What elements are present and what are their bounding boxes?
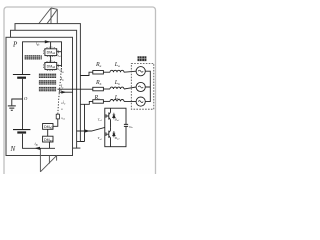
wire left rail lower xyxy=(23,134,56,149)
battery B1 long plate xyxy=(13,74,30,76)
top fin vertical 2 xyxy=(56,9,58,30)
resistor Rc xyxy=(93,100,104,104)
svg-text:DMa1: DMa1 xyxy=(47,51,56,56)
svg-text:N: N xyxy=(10,145,16,153)
bottom fin vertical 1 xyxy=(39,148,41,172)
wire Ra-La xyxy=(103,71,110,73)
DM unit 2 box xyxy=(45,63,57,70)
battery B2 long plate xyxy=(13,129,30,131)
ground symbol xyxy=(8,106,16,110)
wire DM1 top drop xyxy=(50,42,52,49)
svg-text:Da2: Da2 xyxy=(114,136,121,141)
AC source c xyxy=(136,97,145,106)
DM unit 4 box xyxy=(43,136,53,142)
wire bus to DM3 xyxy=(53,119,58,126)
top fin top edge xyxy=(51,8,57,9)
diode D2 xyxy=(113,131,116,137)
AC source b xyxy=(136,82,145,91)
inductor La xyxy=(110,70,124,72)
wire Rc-Lc xyxy=(103,100,110,102)
svg-text:DMa3: DMa3 xyxy=(44,125,53,130)
bottom fin vertical 2 xyxy=(48,156,50,164)
svg-text:P: P xyxy=(12,41,18,49)
top fin slant A xyxy=(39,8,52,24)
wire phase c xyxy=(80,101,92,104)
wire DM2 right out xyxy=(57,65,62,67)
svg-text:DMan: DMan xyxy=(44,138,53,143)
battery B2 short plate xyxy=(17,131,26,133)
battery group text row 2 xyxy=(39,80,56,84)
label manual switch text xyxy=(25,55,42,59)
battery group text row 1 xyxy=(39,74,56,78)
module box 1 (front) xyxy=(6,37,73,155)
page frame xyxy=(4,7,156,185)
arrow on N bus xyxy=(34,147,40,150)
wire right bus dashed xyxy=(58,68,62,114)
IGBT T2 xyxy=(106,127,111,146)
dashed oval around DM1 xyxy=(43,47,58,57)
module box 3 (back) xyxy=(15,24,80,142)
module box 2 (middle) xyxy=(11,30,77,148)
small series box on bus xyxy=(56,114,59,119)
wire Lb-grid xyxy=(124,87,136,89)
wire right bus solid xyxy=(61,52,63,67)
wire phase b xyxy=(58,88,93,90)
svg-text:Ta1: Ta1 xyxy=(98,118,102,123)
inductor Lc xyxy=(110,99,124,101)
wire internal output with arrow xyxy=(59,91,73,93)
wire DM4 down to N bus xyxy=(49,142,51,148)
DM unit 3 box xyxy=(43,124,53,130)
wire DM1-DM2 xyxy=(50,56,52,63)
svg-text:DMa2: DMa2 xyxy=(47,64,56,69)
resistor Rb xyxy=(93,87,104,91)
wire phase a xyxy=(80,72,92,75)
wire La-grid xyxy=(124,71,136,72)
dashed oval around DM2 xyxy=(43,61,58,71)
ground stub wire xyxy=(12,99,23,105)
battery B1 short plate xyxy=(17,77,26,79)
callout wire from stack to module detail xyxy=(77,104,111,148)
top fin vertical 1 xyxy=(50,8,52,24)
IGBT T1 xyxy=(106,108,111,127)
bottom fin slant 1 xyxy=(40,155,57,172)
wire DM1 right out xyxy=(57,51,62,53)
battery group text row 3 xyxy=(39,87,56,91)
DM unit 1 box xyxy=(45,49,57,56)
capacitor on right edge xyxy=(125,124,127,126)
svg-text:Da1: Da1 xyxy=(114,117,120,122)
diode D1 xyxy=(113,113,116,119)
AC source a xyxy=(136,67,145,76)
bottom fin vertical 3 xyxy=(56,156,58,161)
top fin slant B xyxy=(47,9,58,24)
grid label xyxy=(138,56,147,61)
wire DM3-DM4 xyxy=(47,129,49,136)
wire Rb-Lb xyxy=(103,88,110,90)
grid dashed box xyxy=(131,63,154,109)
arrow on top bus xyxy=(45,40,51,43)
wire left rail middle xyxy=(22,79,24,129)
grid neutral stubs xyxy=(145,71,150,101)
resistor Ra xyxy=(93,71,104,75)
wire Lc-grid xyxy=(124,100,136,102)
half-bridge module box xyxy=(105,108,126,147)
wire top bus from P rail xyxy=(23,42,62,74)
inductor Lb xyxy=(110,87,124,89)
arrow on callout xyxy=(85,130,90,133)
